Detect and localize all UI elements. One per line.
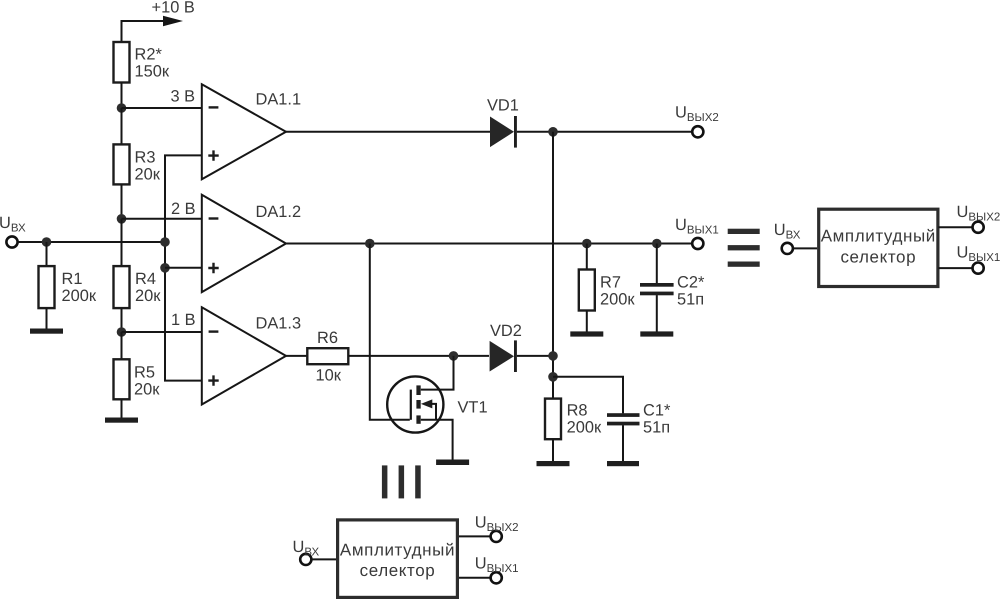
svg-text:10к: 10к: [316, 366, 342, 384]
svg-text:VD2: VD2: [490, 322, 522, 340]
wire R6 to VD2: [348, 355, 489, 357]
wire VT1 drain: [421, 356, 454, 390]
wire block1 input: [793, 247, 817, 249]
ground R8: [537, 461, 570, 466]
resistor R4: [114, 266, 130, 308]
wire C2 to ground: [656, 295, 658, 332]
VD1 cathode bar: [514, 116, 517, 148]
wire common vertical VD1 to R8: [552, 132, 554, 399]
wire block2 output 2: [459, 535, 491, 537]
wire R4 to node C: [121, 308, 123, 332]
equivalence sign bottom: [382, 465, 421, 498]
wire block2 output 1: [459, 577, 491, 579]
resistor R8: [545, 399, 561, 440]
DA1.3 plus sign: [208, 375, 218, 385]
resistor R3: [114, 144, 130, 184]
node VD2 output: [548, 351, 558, 361]
equivalence sign right: [728, 229, 760, 267]
wire block2 input: [311, 558, 336, 560]
ground C2: [640, 331, 673, 336]
svg-text:150к: 150к: [135, 63, 170, 81]
svg-text:20к: 20к: [135, 287, 161, 305]
DA1.2 minus sign: [209, 217, 219, 219]
wire power rail: [122, 21, 166, 42]
terminal block2 Uвых2: [491, 531, 502, 542]
svg-text:2 В: 2 В: [171, 200, 196, 218]
node input rail junction: [160, 237, 170, 247]
op-amp DA1.2: [202, 195, 286, 292]
svg-text:Амплитудный: Амплитудный: [821, 227, 936, 246]
svg-text:R5: R5: [134, 364, 155, 382]
power arrow: [163, 16, 183, 26]
wire VT1 source to ground: [421, 420, 453, 460]
svg-text:51п: 51п: [677, 291, 704, 309]
terminal block2 Uвх: [300, 554, 311, 565]
diode VD2: [490, 341, 514, 372]
wire node B to DA1.2 inverting input: [122, 218, 202, 220]
resistor R2: [114, 42, 130, 83]
block amplitude selector bottom: [338, 520, 458, 598]
node A (R2/R3, 3 В): [117, 103, 127, 113]
wire block1 output 2: [938, 226, 972, 228]
wire noninverting rail: [165, 155, 202, 380]
svg-text:20к: 20к: [134, 381, 160, 399]
svg-text:DA1.2: DA1.2: [256, 203, 302, 221]
ground C1: [607, 461, 639, 466]
wire VD2 to common vertical: [517, 355, 553, 357]
svg-text:R8: R8: [567, 402, 588, 420]
svg-text:Амплитудный: Амплитудный: [340, 540, 455, 559]
svg-text:51п: 51п: [643, 419, 670, 437]
terminal block1 Uвых1: [973, 263, 984, 274]
svg-text:VT1: VT1: [458, 399, 488, 417]
svg-text:селектор: селектор: [840, 247, 916, 266]
svg-text:R6: R6: [317, 329, 338, 347]
svg-text:R2*: R2*: [135, 46, 163, 64]
wire to DA1.2 noninverting input: [165, 267, 202, 269]
svg-text:C1*: C1*: [643, 402, 671, 420]
op-amp DA1.3: [202, 307, 286, 404]
svg-text:селектор: селектор: [360, 561, 436, 580]
resistor R7: [586, 244, 588, 270]
ground VT1: [436, 460, 469, 466]
wire C1 to ground: [622, 425, 624, 462]
node DA1.2 noninverting branch: [160, 263, 170, 273]
wire R5 to ground: [121, 399, 123, 418]
wire R1 to ground: [46, 308, 48, 329]
svg-text:3 В: 3 В: [171, 88, 196, 106]
svg-text:20к: 20к: [135, 166, 161, 184]
svg-text:R4: R4: [135, 270, 156, 288]
node gate branch: [365, 239, 375, 249]
DA1.2 plus sign: [208, 263, 218, 273]
wire input rail: [18, 241, 166, 243]
svg-text:VD1: VD1: [487, 97, 519, 115]
node VT1 drain branch: [449, 351, 459, 361]
svg-text:200к: 200к: [62, 287, 97, 305]
node R1 junction: [42, 237, 52, 247]
svg-text:200к: 200к: [600, 291, 635, 309]
wire node A to R3: [121, 108, 123, 145]
DA1.1 plus sign: [208, 150, 218, 160]
svg-text:DA1.3: DA1.3: [256, 315, 302, 333]
wire DA1.3 output to R6: [286, 355, 307, 357]
capacitor C1: [553, 377, 623, 414]
wire node A to DA1.1 inverting input: [122, 107, 202, 109]
node VD1 output: [548, 127, 558, 137]
ground R1: [30, 329, 63, 334]
wire R3 to node B: [121, 184, 123, 218]
DA1.3 minus sign: [209, 330, 219, 332]
resistor R6: [307, 348, 348, 364]
wire DA1.1 output to VD1: [286, 131, 490, 133]
capacitor C2: [656, 244, 658, 284]
wire node to R1: [46, 242, 48, 266]
wire DA1.2 output to terminal: [286, 243, 692, 245]
resistor R5: [114, 359, 130, 399]
svg-text:R7: R7: [600, 274, 621, 292]
svg-text:DA1.1: DA1.1: [256, 91, 302, 109]
resistor R1: [39, 266, 55, 308]
DA1.1 minus sign: [209, 106, 219, 108]
ground R5: [105, 418, 138, 423]
diode VD1: [490, 117, 514, 148]
ground R7: [570, 331, 603, 336]
svg-text:C2*: C2*: [677, 274, 705, 292]
svg-text:R1: R1: [62, 270, 83, 288]
terminal block1 Uвх: [782, 243, 793, 254]
node R7 branch: [582, 239, 592, 249]
node B (R3/R4, 2 В): [117, 214, 127, 224]
wire R7 to ground: [586, 311, 588, 333]
node C1 branch: [548, 372, 558, 382]
node C2 branch: [652, 239, 662, 249]
transistor VT1: [387, 376, 443, 432]
wire VD1 to output terminal: [517, 131, 692, 133]
wire node C to R5: [121, 332, 123, 359]
svg-text:200к: 200к: [567, 419, 602, 437]
svg-text:+10 В: +10 В: [152, 0, 195, 16]
VD2 cathode bar: [514, 340, 517, 372]
terminal Uвых1: [692, 238, 703, 249]
wire R2 to node A: [121, 83, 123, 109]
node C (R4/R5, 1 В): [117, 327, 127, 337]
input terminal Uвх: [6, 236, 17, 247]
terminal block2 Uвых1: [491, 572, 502, 583]
wire DA1.2 output to VT1 gate: [370, 244, 410, 420]
svg-text:1 В: 1 В: [171, 311, 196, 329]
op-amp DA1.1: [202, 84, 286, 179]
wire node C to DA1.3 inverting input: [122, 331, 202, 333]
block amplitude selector right: [819, 209, 938, 286]
wire R8 to ground: [552, 439, 554, 462]
terminal block1 Uвых2: [973, 222, 984, 233]
wire node B to R4: [121, 219, 123, 266]
wire block1 output 1: [938, 267, 972, 269]
svg-text:R3: R3: [135, 149, 156, 167]
terminal Uвых2: [692, 126, 703, 137]
